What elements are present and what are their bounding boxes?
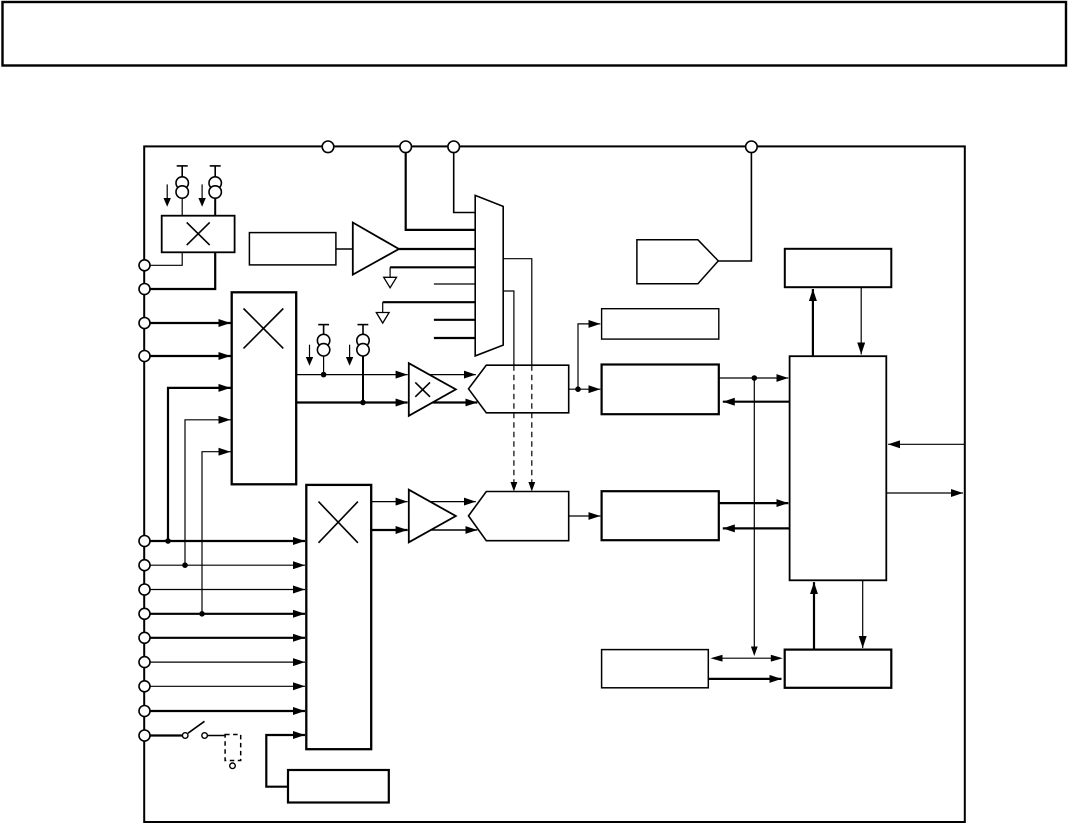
- wire: riser junction t2 to U2 input: [182, 420, 230, 568]
- wire: U3 output 1 to amp A3: [371, 501, 407, 503]
- current arrow for I4: [346, 345, 353, 366]
- wire: mux input with open arrow symbol 2: [376, 302, 475, 323]
- terminal P12: [139, 608, 150, 619]
- dashed arrow 2 from mux through C1 to C2: [511, 365, 518, 491]
- multiplexer M1: [475, 195, 503, 356]
- wire: B4 up-arrow to B5: [812, 289, 814, 356]
- mixer U1 (top-left): [162, 216, 235, 253]
- terminal P10: [139, 560, 150, 571]
- block B3: [602, 491, 719, 540]
- wire: mux stub input bold 1: [434, 319, 475, 321]
- terminal T3: [448, 141, 460, 153]
- wires: left terminals to U3 inputs: [150, 540, 305, 542]
- op-amp A2 (with x): [409, 363, 456, 416]
- wire: B7 up-arrow to B4: [813, 582, 815, 650]
- open circle under dashed box: [230, 763, 236, 769]
- wire: B5 down-arrow to B4: [860, 287, 862, 354]
- current source I2: [209, 166, 221, 216]
- current arrow for I3: [306, 345, 313, 366]
- wire: riser from top terminal P3 to mux input: [454, 147, 476, 213]
- block B2: [602, 365, 719, 415]
- terminal P6: [139, 284, 150, 295]
- current arrow for I1: [164, 184, 171, 206]
- current source I1: [176, 166, 188, 216]
- wire: A1 output to mux: [399, 248, 475, 250]
- terminal P8: [139, 351, 150, 362]
- wire: U2 output 2 to amp A2: [296, 400, 407, 406]
- wire: R1 to amp A1: [336, 248, 353, 250]
- wire: long dropper from junction to bottom bus: [751, 378, 758, 656]
- wire: terminal P8 to U2 input: [150, 355, 231, 357]
- block B7 (bottom right of pair): [785, 650, 892, 688]
- wire: riser junction t4 to U2 input: [199, 452, 230, 617]
- terminal P13: [139, 632, 150, 643]
- block B6 (bottom left of pair): [602, 650, 709, 688]
- wire: big block to B3 input: [723, 527, 790, 529]
- wire: Vcc riser from top terminal P2 to mux input: [406, 147, 476, 230]
- terminal P11: [139, 584, 150, 595]
- terminal P7: [139, 318, 150, 329]
- wire: B4 down-arrow to B7: [862, 580, 864, 648]
- wire: C2 output to rect B3: [569, 515, 601, 517]
- wire: C1 output to rect B2 with junction: [569, 324, 601, 392]
- dashed box D1: [225, 735, 241, 761]
- reference block R1: [249, 233, 336, 265]
- op-amp A3: [409, 490, 456, 543]
- outer border: [144, 146, 965, 822]
- current source I4: [357, 325, 369, 403]
- terminal P9: [139, 536, 150, 547]
- terminal T4: [746, 141, 758, 153]
- wire: U1 output b to terminal P6: [150, 252, 215, 289]
- terminal T2: [400, 141, 412, 153]
- wire: mux stub input bold 2: [434, 337, 475, 339]
- wire: terminal P7 to U2 input: [150, 322, 231, 324]
- terminal P5: [139, 260, 150, 271]
- header box: [3, 2, 1067, 66]
- wire: A3 to chevron C2 lower: [431, 529, 478, 531]
- wire: B3 output to big block: [719, 502, 789, 504]
- wire: riser junction t1 to U2 input: [165, 388, 230, 544]
- terminal P15: [139, 681, 150, 692]
- big block B4 (control): [790, 356, 887, 580]
- wire: mux input with open arrow symbol 1: [384, 267, 476, 288]
- terminal P14: [139, 657, 150, 668]
- current arrow for I2: [198, 184, 205, 206]
- wire: big block to B2 input: [723, 401, 790, 403]
- wire: U3 output 2 to amp A3: [371, 529, 407, 531]
- wire: B4 output to right border: [886, 492, 963, 494]
- wire: double arrow between B6 and B7: [711, 655, 783, 662]
- mixer U2 (middle): [232, 292, 297, 484]
- wire: mux stub input thin: [434, 283, 475, 285]
- wire: B2 output to big block with junction: [719, 375, 789, 381]
- wire: A2 to chevron C1 lower: [433, 401, 478, 403]
- op-amp A1: [353, 223, 399, 275]
- block B5 (top right): [785, 249, 892, 287]
- wire: B6 to B7 bold: [708, 678, 781, 680]
- chevron block C1: [469, 365, 569, 413]
- terminal P17: [139, 730, 150, 741]
- block B1 (small upper): [602, 309, 719, 339]
- pentagon flag P: [637, 240, 718, 284]
- wire: mux output 2: [503, 291, 514, 365]
- chevron block C2: [469, 492, 569, 541]
- wire: U2 output 1 to amp A2: [296, 372, 407, 378]
- wire: B8 to U3 input L-path: [266, 735, 305, 787]
- terminal P16: [139, 706, 150, 717]
- wire: U1 output a to terminal P5: [150, 252, 182, 265]
- terminal T1: [322, 141, 334, 153]
- wire: mux output 1: [503, 259, 532, 366]
- mixer U3 (tall bottom): [306, 485, 371, 749]
- block B8 (bottom latch): [288, 770, 389, 803]
- wire: input from right border into B4: [888, 443, 965, 445]
- dashed arrow 1 from mux through C1 to C2: [528, 365, 535, 491]
- switch SW1: [150, 721, 225, 738]
- wire: A2 to chevron C1 upper: [429, 374, 476, 376]
- wire: A3 to chevron C2 upper: [430, 501, 476, 503]
- current source I3: [317, 325, 329, 375]
- wire: from top terminal P4 down to pentagon tip: [718, 147, 751, 261]
